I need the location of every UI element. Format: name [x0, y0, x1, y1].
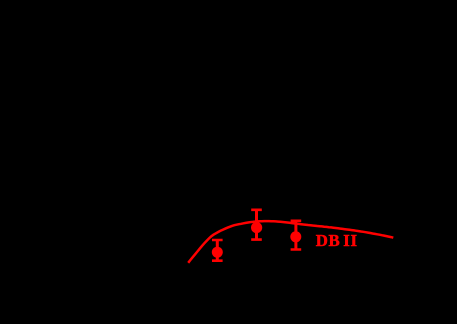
svg-text:DB II: DB II	[316, 231, 358, 250]
